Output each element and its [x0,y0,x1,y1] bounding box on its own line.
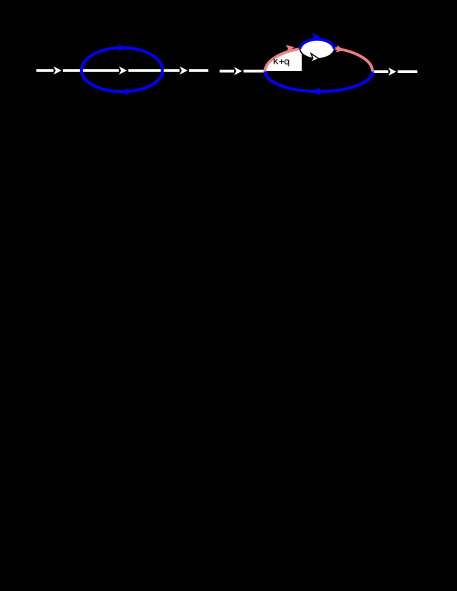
diagram 2: pink arrow on upper-left arc [286,43,295,52]
diagram 2: outgoing fermion line (broken at arrowhead) [373,70,418,73]
diagram 1: blue loop upper arc [81,48,162,71]
diagram 2: pink upper-right arc of big loop [334,48,372,71]
diagram 2: pink upper-left arc of big loop [265,49,300,72]
diagram 1: external fermion propagator line (broken at arrowheads) [36,69,208,72]
glyph k [274,59,278,65]
diagram 2: white label box k+q (clipped by loop arc) [265,49,302,71]
diagram 2: blue arrow bottom of big loop (points left) [312,87,321,95]
diagram 1: white arrow A3 on outgoing line [180,66,188,74]
diagram 2: label k+q (drawn as vector glyphs) [274,59,289,67]
diagram 2: blue lower arc of big loop [265,72,373,92]
diagram 1: blue loop lower arc [81,71,162,92]
glyph q [285,60,289,64]
diagram 1: blue arrow top of loop (points right) [118,44,126,52]
diagram 2: small bubble lower black arc [300,49,334,59]
diagram 1: white arrow A1 on incoming line [54,66,62,74]
diagram 2: white outlined arrow bottom of bubble (points right) [310,54,319,64]
diagram 2: incoming fermion line (broken at arrowhead) [220,70,266,73]
diagram 2: small bubble white fill [300,39,335,60]
diagram 1: blue arrow bottom of loop (points left) [121,88,129,96]
diagram 2: blue arrow top of bubble (points right) [311,32,320,41]
diagram 2: white arrow B1 on incoming line [234,67,242,75]
diagram 2: white arrow B2 on outgoing line [388,67,396,75]
glyph + [279,59,284,64]
diagram 2: pink arrow on upper-right arc [336,45,345,54]
diagram 1: white arrow A2 inside loop [119,66,127,74]
diagram 2: small bubble upper blue arc [300,39,334,49]
